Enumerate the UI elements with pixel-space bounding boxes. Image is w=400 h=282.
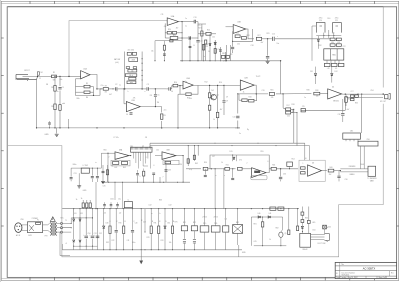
resistor R51 [225, 167, 230, 170]
svg-text:1u: 1u [119, 85, 121, 87]
svg-text:C41: C41 [127, 240, 130, 242]
svg-text:22k: 22k [131, 71, 134, 73]
op-amp U1A [81, 71, 90, 79]
wire riser x1831 [182, 156, 184, 183]
wire stage2 entry [210, 84, 224, 86]
svg-text:47k: 47k [271, 97, 274, 99]
resistor R5 feedback [84, 85, 90, 88]
switch ladder box row 2 [129, 58, 138, 62]
wire hdr join [143, 165, 148, 167]
svg-text:R53: R53 [272, 165, 275, 167]
svg-text:NE5532: NE5532 [333, 101, 339, 103]
wire fb row y38 [164, 33, 166, 38]
svg-text:F: F [142, 220, 143, 222]
pot cluster boxes [221, 55, 225, 58]
svg-text:10k_b: 10k_b [129, 75, 133, 77]
wire q1 col [217, 85, 219, 112]
wire x267 drop to gnd [267, 39, 269, 56]
svg-text:R8: R8 [150, 95, 152, 97]
wire U3B out [246, 29, 254, 39]
svg-text:INPUT: INPUT [24, 70, 30, 72]
svg-text:R18: R18 [292, 104, 295, 106]
resistor R44 [106, 170, 108, 175]
svg-text:GND: GND [44, 134, 49, 136]
right edge zone ticks [397, 37, 399, 39]
svg-text:4k7: 4k7 [220, 109, 223, 111]
svg-text:10k: 10k [212, 37, 215, 39]
svg-text:C31: C31 [74, 173, 77, 175]
svg-text:+V: +V [65, 243, 67, 245]
svg-text:u7815: u7815 [202, 217, 207, 219]
svg-text:C10: C10 [233, 117, 236, 119]
svg-text:1k: 1k [243, 91, 245, 93]
wire secondary mid link [63, 227, 72, 229]
svg-text:4u7: 4u7 [347, 109, 350, 111]
svg-text:1n: 1n [203, 56, 205, 58]
capacitor bank staple 1 [316, 23, 325, 33]
wire under U8B comps [165, 162, 167, 182]
wire U2B output link [254, 85, 256, 94]
diode D22 [73, 240, 75, 242]
resistor R20 fb [167, 32, 171, 35]
svg-text:TL072: TL072 [256, 76, 261, 78]
wire x182 long drop [181, 22, 183, 61]
svg-text:2: 2 [117, 91, 118, 93]
svg-text:R28: R28 [247, 35, 250, 37]
wire psu left drop x280 [312, 26, 316, 61]
diode D15 [233, 157, 235, 159]
capacitor C9 [223, 100, 226, 102]
resistor R64 [143, 171, 145, 176]
svg-text:R74: R74 [161, 240, 164, 242]
svg-text:B: B [193, 45, 194, 47]
svg-text:D41: D41 [269, 213, 272, 215]
wire drop x339 [338, 171, 340, 176]
stub x2327 up [232, 155, 234, 161]
node rail [102, 182, 103, 183]
svg-text:AC-30BTX: AC-30BTX [363, 267, 376, 271]
regulator VR3 box [223, 226, 229, 232]
wire U2B feedback box [238, 94, 240, 100]
wire U6 out [322, 170, 327, 172]
sheet middle border bottom [1, 278, 398, 280]
svg-text:R51: R51 [226, 165, 229, 167]
svg-text:C37: C37 [212, 156, 215, 158]
wire cn3 pins down [360, 146, 362, 169]
svg-text:C1: C1 [39, 78, 41, 80]
svg-text:22u: 22u [164, 110, 167, 112]
wire U8B out [176, 155, 183, 157]
boxes on bus lower [270, 207, 276, 210]
svg-text:100n: 100n [110, 199, 114, 201]
resistor R22 [170, 37, 178, 40]
switch ladder box row 6 [129, 77, 136, 80]
wire secondary taps [57, 222, 61, 224]
svg-text:R12: R12 [205, 82, 208, 84]
wire switch to transformer [43, 224, 48, 226]
svg-text:C27: C27 [351, 91, 354, 93]
svg-text:47p: 47p [189, 169, 192, 171]
svg-text:R26: R26 [236, 33, 239, 35]
diode D41 [268, 216, 270, 218]
svg-text:C45: C45 [254, 241, 257, 243]
node R2 top [54, 76, 55, 77]
relay block [300, 233, 311, 247]
double bus pair [150, 142, 305, 144]
wire U1B output [140, 106, 161, 108]
svg-text:4k7: 4k7 [109, 94, 112, 96]
diode D21 [79, 219, 81, 221]
svg-text:CN4: CN4 [130, 146, 133, 148]
resistor R16 fb [242, 99, 247, 102]
wire mid rail y1838 [102, 181, 190, 183]
wire foot col 1 [301, 207, 303, 213]
title block outline [335, 262, 396, 278]
svg-text:2k2: 2k2 [329, 174, 332, 176]
wire col x1014 to opamp [100, 153, 102, 168]
svg-text:u7915: u7915 [213, 217, 218, 219]
resistor R33 [314, 92, 320, 95]
wire U1B out drop to bus [161, 107, 163, 113]
svg-text:100: 100 [332, 33, 335, 35]
svg-text:R35: R35 [355, 103, 358, 105]
svg-text:C7 47u: C7 47u [113, 137, 119, 139]
svg-text:R16: R16 [249, 96, 252, 98]
svg-text:10k: 10k [316, 96, 319, 98]
switch ladder box row 5 [125, 74, 137, 77]
svg-text:R5: R5 [86, 83, 88, 85]
svg-text:D12: D12 [335, 71, 338, 73]
node foot [302, 231, 303, 232]
resistor R24b [214, 49, 216, 54]
left edge zone ticks [1, 37, 3, 39]
svg-text:47n: 47n [223, 61, 226, 63]
connector AC inlet [15, 223, 22, 233]
bus subcircuit [254, 245, 286, 247]
svg-text:R6: R6 [86, 97, 88, 99]
svg-text:1n: 1n [304, 97, 306, 99]
transistor Q1 [211, 94, 217, 100]
svg-text:8P: 8P [142, 146, 144, 148]
op-amp U2B [240, 80, 254, 90]
capacitor C13b inner [163, 53, 166, 55]
node row [256, 93, 257, 94]
wire U4 out return [345, 97, 383, 99]
svg-text:C15: C15 [272, 34, 275, 36]
comp marks right trio [187, 159, 189, 163]
wire rail stub x1375 [137, 176, 139, 183]
svg-text:220: 220 [287, 116, 290, 118]
switch contacts [29, 225, 34, 231]
wire U1A feedback box [76, 79, 101, 96]
wire U8B feedback box [163, 160, 179, 164]
title block rev divider [389, 271, 391, 277]
relay RY1 [181, 226, 187, 231]
svg-text:R33: R33 [315, 90, 318, 92]
wire psu mid rail [316, 34, 341, 36]
svg-text:in: in [95, 162, 96, 164]
wire U8A feedback box [111, 160, 130, 166]
resistor R1b vertical [37, 72, 39, 75]
node chain c [155, 88, 156, 89]
resistor R10 [173, 84, 178, 87]
svg-text:1n: 1n [57, 91, 59, 93]
svg-text:C14: C14 [218, 49, 221, 51]
svg-text:R24: R24 [207, 30, 210, 32]
wire transformer primary stubs [48, 223, 50, 225]
wire input-to-first-stage top loop [69, 21, 166, 76]
resistor R14 [216, 112, 218, 117]
svg-text:RY2: RY2 [193, 222, 196, 224]
svg-text:C1: C1 [62, 87, 64, 89]
op-amp U1B [126, 102, 140, 112]
resistor R24 row [206, 32, 211, 35]
resistor R34 drop [345, 94, 347, 97]
title block row line 2 [335, 270, 396, 272]
wire foot cable lines [311, 234, 325, 236]
svg-text:1k: 1k [112, 165, 114, 167]
wire bus pair left drops [149, 143, 151, 147]
wire U9 out [266, 169, 269, 173]
wire x215 drop [214, 40, 216, 61]
svg-text:C2a: C2a [101, 85, 104, 87]
svg-text:R32: R32 [319, 45, 322, 47]
wire rail stub x1437 [143, 176, 145, 182]
svg-text:R54: R54 [292, 159, 295, 161]
svg-text:68k: 68k [53, 80, 56, 82]
svg-text:47k: 47k [105, 92, 108, 94]
svg-text:1u: 1u [185, 26, 187, 28]
svg-text:C2: C2 [115, 84, 117, 86]
svg-text:+: + [83, 234, 84, 236]
svg-text:D31: D31 [167, 222, 170, 224]
connector block CN2 [343, 133, 361, 139]
capacitor C30 [337, 175, 340, 177]
regulator VR1 box [200, 226, 209, 232]
svg-text:D32: D32 [106, 242, 109, 244]
wire shunt drop C1 [59, 76, 61, 86]
wire sub col left [250, 217, 252, 246]
diode D11 [314, 74, 316, 76]
protection subcircuit top wire [251, 216, 282, 218]
wire riser to bus x178 [177, 94, 179, 128]
component on loop top [170, 40, 173, 42]
connector block CN3 [358, 141, 378, 146]
svg-text:R55: R55 [261, 151, 264, 153]
svg-text:1u: 1u [185, 18, 187, 20]
node bus pa [73, 208, 74, 209]
svg-text:10u: 10u [276, 43, 279, 45]
stub x2365 up [236, 155, 238, 161]
op-amp U8B [162, 152, 176, 160]
regulator block U5 [324, 49, 344, 60]
svg-text:R82: R82 [276, 228, 279, 230]
svg-text:(ch1): (ch1) [115, 62, 119, 64]
svg-text:C36: C36 [283, 174, 286, 176]
bus top center [180, 60, 281, 62]
svg-text:D20: D20 [74, 213, 77, 215]
svg-text:CN1: CN1 [370, 90, 373, 92]
svg-text:SW1: SW1 [28, 235, 32, 237]
wire x203 drop [203, 44, 205, 61]
svg-text:odd: odd [62, 103, 65, 105]
title block left column line [339, 262, 341, 278]
svg-text:C42: C42 [143, 222, 146, 224]
svg-text:47k: 47k [164, 26, 167, 28]
capacitor C6 [168, 87, 170, 90]
svg-text:R22: R22 [173, 34, 176, 36]
svg-text:1k: 1k [221, 162, 223, 164]
psu bottom boxes [324, 63, 330, 66]
electrolytic row [104, 202, 106, 204]
bottom edge zone ticks [29, 277, 31, 280]
svg-text:4n7_33k: 4n7_33k [128, 49, 135, 51]
svg-text:R6b: R6b [77, 98, 80, 100]
wire col x974 [96, 168, 98, 176]
node fb2 [179, 85, 180, 86]
svg-text:+40: +40 [103, 213, 106, 215]
svg-text:4558: 4558 [132, 60, 136, 62]
op-amp U4 [328, 89, 342, 99]
wire pair bend down to reverb [304, 143, 306, 160]
wire rect column top rail [71, 217, 92, 219]
switch ladder box row 7 [127, 81, 136, 84]
resistor R60 [301, 212, 304, 215]
resistor R6 feedback [84, 91, 90, 93]
resistor R48 fb [165, 161, 171, 164]
title block row line 3 [335, 275, 396, 277]
svg-text:R25: R25 [198, 25, 201, 27]
svg-text:7915: 7915 [214, 223, 218, 225]
wire sub col mid [262, 217, 264, 222]
feedback rect lower [210, 155, 269, 169]
wire sub stubs right [288, 209, 290, 230]
regulator VR2 box [211, 226, 220, 232]
node tc [203, 60, 204, 61]
svg-text:BR1: BR1 [236, 222, 239, 224]
component boxes drv [351, 95, 355, 97]
svg-text:R17: R17 [287, 105, 290, 107]
bus ground preamp [36, 127, 240, 129]
node tone loop [154, 60, 155, 61]
wire risers right trio [187, 146, 189, 166]
wire drop x2053 [204, 169, 206, 175]
svg-text:C18: C18 [251, 45, 254, 47]
svg-text:CN2: CN2 [350, 131, 353, 133]
pin header hatch [131, 147, 133, 149]
diode D51 [301, 226, 303, 228]
capacitor C16 [266, 55, 269, 57]
ground sym c16 [266, 60, 270, 62]
svg-text:R1: R1 [53, 72, 55, 74]
resistor R60b [301, 220, 304, 223]
diode D20 [73, 219, 75, 221]
node chain a [124, 88, 125, 89]
wire U3B input [226, 26, 234, 28]
switch ladder block rails [124, 52, 126, 89]
svg-text:R36: R36 [307, 90, 310, 92]
svg-text:R71: R71 [154, 222, 157, 224]
svg-text:+15: +15 [327, 68, 330, 70]
bridge rectifier BR1 [233, 225, 243, 234]
svg-text:R65: R65 [305, 218, 308, 220]
svg-text:U6: U6 [304, 158, 306, 160]
svg-text:REVERB: REVERB [349, 166, 356, 168]
svg-text:POWER: POWER [32, 218, 39, 220]
capacitor C10 [236, 115, 239, 117]
node out [161, 127, 162, 128]
resistor R42 R43 feedback [113, 162, 119, 165]
op-amp U6 [308, 165, 322, 176]
svg-text:C30: C30 [345, 179, 348, 181]
svg-text:TL: TL [86, 74, 88, 76]
svg-text:C26: C26 [338, 114, 341, 116]
svg-text:R63: R63 [159, 200, 162, 202]
wire U8A out [129, 155, 132, 157]
node bus j1 [36, 127, 37, 128]
svg-text:R14: R14 [219, 82, 222, 84]
svg-text:10k: 10k [189, 98, 192, 100]
left small chain x2057 [205, 40, 207, 44]
wire to U2B [224, 84, 240, 86]
resistor R80 [261, 222, 263, 227]
svg-text:R10: R10 [174, 82, 177, 84]
connector J1 input jack [16, 74, 28, 76]
diode D23 [79, 240, 81, 242]
diode D12 [331, 74, 333, 76]
svg-text:CN5: CN5 [20, 219, 23, 221]
bus poweramp main [62, 208, 299, 210]
wire U3A out [179, 21, 183, 23]
svg-text:R27: R27 [258, 35, 261, 37]
connector reverb tank [368, 166, 376, 176]
svg-text:C9: C9 [226, 101, 228, 103]
capacitor C1 [58, 86, 61, 88]
svg-text:D21: D21 [80, 213, 83, 215]
wire into U3A [166, 20, 167, 22]
svg-text:C33: C33 [168, 170, 171, 172]
wire feedback lower y110 [301, 109, 345, 111]
svg-text:R42: R42 [114, 167, 117, 169]
top edge zone ticks [29, 1, 31, 3]
svg-text:n: n [145, 91, 146, 93]
svg-text:D15: D15 [230, 151, 233, 153]
svg-text:7: 7 [163, 177, 164, 179]
node y38 [181, 37, 182, 38]
capacitor C38 [136, 173, 139, 175]
capacitor C2 [114, 87, 116, 90]
wire U2A feedback [180, 86, 185, 95]
wire driver input [305, 93, 311, 95]
warning triangle [50, 217, 55, 222]
capacitor C5 [154, 94, 157, 96]
wire top entry x201 [198, 23, 206, 25]
svg-text:R40: R40 [330, 167, 333, 169]
transistor cluster drop 1 [209, 85, 211, 92]
svg-text:RY1: RY1 [183, 222, 186, 224]
wire riser x3617 to connector [361, 94, 363, 133]
wire U4 out [342, 93, 383, 95]
switch ladder box row 4 [128, 69, 137, 72]
svg-text:R20: R20 [168, 29, 171, 31]
capacitor C3 [146, 87, 148, 90]
switch fuse box [28, 222, 43, 233]
wire rail stub x1537 [153, 175, 155, 182]
resistor R19 inner [163, 45, 165, 50]
svg-text:R15: R15 [270, 90, 273, 92]
svg-text:VR1: VR1 [222, 53, 225, 55]
wire x2327 drop cap [232, 169, 234, 178]
